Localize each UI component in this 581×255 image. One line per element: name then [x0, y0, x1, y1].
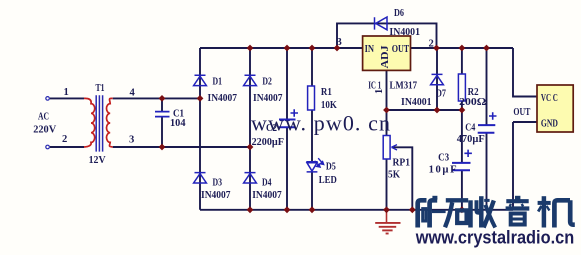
wire RP1 wiper [392, 147, 413, 210]
capacitor C2 plates [279, 120, 296, 128]
diode D3 [194, 173, 207, 183]
svg-text:3: 3 [337, 37, 342, 48]
svg-text:D6: D6 [394, 8, 404, 19]
svg-text:GND: GND [541, 119, 558, 130]
svg-text:www. pw0. cn: www. pw0. cn [251, 110, 390, 135]
transformer T1 core [96, 95, 102, 151]
wire C3 to ground rail [461, 171, 463, 210]
wire transformer pin 3 to bridge [113, 146, 250, 148]
potentiometer RP1 wiper arrow head [392, 145, 398, 150]
svg-text:T1: T1 [96, 83, 105, 94]
wire bottom ground rail [200, 209, 513, 211]
wire ADJ node horizontal [387, 109, 462, 111]
svg-text:IN4007: IN4007 [253, 93, 283, 104]
svg-text:D1: D1 [213, 76, 223, 87]
svg-text:D7: D7 [436, 89, 447, 100]
wire C1 branch lower [161, 117, 163, 147]
capacitor C2 plus sign [291, 109, 299, 116]
wire C1 branch upper [161, 98, 163, 111]
wire top rail to LM317 IN [200, 47, 363, 49]
svg-text:IN4001: IN4001 [389, 27, 420, 38]
svg-text:IN4007: IN4007 [201, 190, 231, 201]
capacitor C3 plates [452, 163, 471, 170]
potentiometer RP1 body [383, 136, 390, 160]
svg-text:LM317: LM317 [390, 81, 418, 92]
terminal circle 1 [46, 97, 50, 101]
LED D5 arrows [315, 158, 324, 167]
svg-text:OUT: OUT [513, 107, 530, 118]
wire D1/D3 branch vertical [199, 48, 201, 210]
wire GND pin down to rail [513, 122, 537, 210]
wire LM317 OUT rail [411, 47, 514, 49]
svg-text:104: 104 [170, 118, 186, 129]
glyph shou [471, 196, 496, 227]
wire R1 top stub [311, 48, 313, 86]
svg-text:2: 2 [62, 134, 67, 145]
wire AC terminal 2 to transformer primary [50, 146, 84, 148]
transformer T1 primary winding [84, 98, 95, 147]
svg-text:OUT: OUT [392, 44, 410, 55]
svg-text:1: 1 [374, 89, 385, 94]
svg-text:LED: LED [319, 175, 337, 186]
svg-text:AC: AC [38, 112, 49, 123]
resistor R1 body [308, 86, 315, 110]
resistor R2 body [458, 74, 465, 101]
svg-text:2200µF: 2200µF [252, 137, 284, 148]
svg-text:D4: D4 [262, 177, 272, 188]
svg-text:IN: IN [365, 44, 375, 55]
wire R2 top stub [461, 48, 463, 74]
watermark kuangshi shouyinji hand-drawn glyphs [418, 196, 575, 227]
svg-text:IN4007: IN4007 [208, 93, 238, 104]
svg-text:IN4007: IN4007 [252, 190, 282, 201]
wire C2 branch upper [286, 48, 288, 120]
svg-text:RP1: RP1 [393, 158, 411, 169]
wire D2/D4 branch vertical [249, 48, 251, 210]
ground symbol [375, 210, 400, 234]
capacitor C3 plus sign [464, 150, 472, 157]
connector output box [537, 85, 573, 132]
svg-text:C4: C4 [465, 123, 476, 134]
wire C2 branch lower [286, 127, 288, 210]
svg-text:5K: 5K [388, 170, 401, 181]
wire RP1 to ground rail [386, 159, 388, 210]
wire LED D5 to ground rail [311, 172, 313, 210]
svg-text:12V: 12V [89, 155, 106, 166]
wire OUT to VCC pin [513, 48, 537, 97]
wire AC terminal 1 to transformer primary [50, 97, 84, 99]
IC LM317 box U1 [363, 36, 411, 70]
wire R2 to C3 [461, 101, 463, 163]
diode D7 [431, 74, 444, 84]
svg-text:3: 3 [129, 135, 134, 146]
glyph ji [538, 196, 575, 227]
svg-text:D3: D3 [213, 177, 223, 188]
svg-text:C3: C3 [438, 153, 449, 164]
wire D6 loop node3 to node2 [337, 23, 437, 48]
svg-text:470µF: 470µF [457, 134, 485, 145]
svg-text:D5: D5 [326, 162, 336, 173]
svg-text:www.crystalradio.cn: www.crystalradio.cn [415, 228, 574, 248]
svg-text:4: 4 [130, 88, 136, 99]
wire LM317 ADJ down [386, 70, 388, 135]
diode D1 [194, 75, 207, 85]
LED D5 [306, 162, 317, 172]
diode D2 [244, 75, 257, 85]
glyph yin [506, 196, 530, 224]
svg-text:10µF: 10µF [429, 165, 457, 176]
terminal circle 2 [46, 145, 50, 149]
svg-text:1: 1 [64, 87, 69, 98]
svg-text:IN4001: IN4001 [401, 97, 432, 108]
glyph kuang [418, 196, 446, 227]
svg-text:200Ω: 200Ω [459, 97, 487, 108]
wire R1 to LED D5 [311, 110, 313, 162]
glyph shi [445, 200, 468, 227]
wire C4 branch upper [486, 48, 488, 125]
svg-text:ADJ: ADJ [380, 46, 391, 69]
transformer T1 secondary winding [106, 98, 112, 147]
capacitor C4 plates [478, 125, 496, 133]
svg-text:220V: 220V [33, 125, 56, 136]
wire transformer pin 4 to bridge [113, 97, 200, 99]
diode D4 [244, 173, 257, 183]
wire C4 branch lower [486, 133, 488, 210]
capacitor C1 plates [155, 112, 170, 117]
svg-text:D2: D2 [262, 76, 272, 87]
wire D7 branch [436, 48, 438, 110]
svg-text:VC C: VC C [541, 93, 558, 104]
svg-text:2: 2 [429, 39, 434, 50]
capacitor C4 plus sign [489, 112, 497, 119]
diode D6 [375, 17, 388, 30]
svg-text:R1: R1 [321, 87, 332, 98]
